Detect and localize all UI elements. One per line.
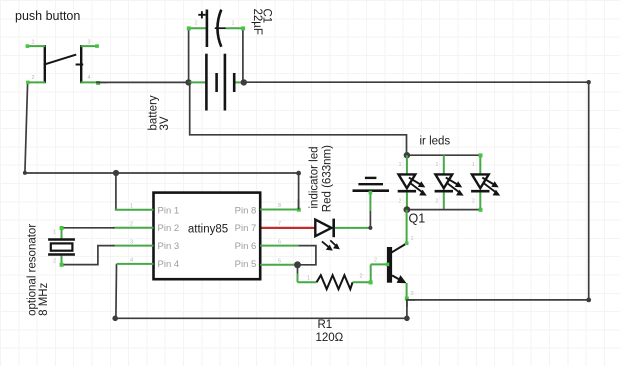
attiny pin 6 stub: [260, 245, 298, 247]
corner dot at (298.6,173): [296, 171, 301, 176]
junction node at (116,173): [113, 170, 119, 176]
wire capacitor left leg down: [188, 28, 190, 82]
ground symbol: [353, 178, 390, 191]
svg-text:1: 1: [411, 236, 414, 242]
wire right rail vertical: [588, 82, 590, 300]
wire battery left node to ir led rail: [190, 82, 407, 155]
svg-text:1: 1: [232, 21, 235, 27]
svg-text:8: 8: [278, 203, 281, 209]
attiny pin 8 stub: [260, 209, 298, 211]
wire push button to battery: [98, 81, 189, 83]
svg-text:Pin 4: Pin 4: [158, 259, 180, 270]
wire ir led bottom rail: [407, 209, 480, 211]
svg-text:1: 1: [130, 204, 133, 210]
junction node collector: [404, 206, 411, 213]
svg-text:Pin 8: Pin 8: [235, 205, 257, 216]
label battery 3V: [148, 95, 172, 130]
label optional resonator 8 MHz: [26, 224, 50, 316]
label indicator led Red (633nm): [309, 145, 334, 212]
label push button: [15, 9, 80, 23]
svg-text:Pin 3: Pin 3: [158, 241, 180, 252]
ir led D3: [471, 155, 500, 209]
svg-text:6: 6: [278, 239, 281, 245]
svg-text:1: 1: [472, 162, 475, 168]
svg-text:3V: 3V: [159, 116, 171, 130]
svg-text:3: 3: [130, 239, 133, 245]
transistor pin number marks: [374, 236, 414, 297]
attiny pin 4 stub: [117, 263, 154, 265]
capacitor C1: [189, 10, 243, 48]
wire capacitor right leg down: [242, 28, 244, 82]
label ir leds: [420, 136, 451, 148]
attiny pin 5 stub: [260, 264, 296, 266]
svg-text:ir leds: ir leds: [420, 136, 451, 148]
svg-text:2: 2: [53, 259, 56, 265]
svg-text:2: 2: [130, 222, 133, 228]
svg-text:Pin 1: Pin 1: [158, 205, 180, 216]
svg-text:8 MHz: 8 MHz: [38, 282, 50, 315]
ir led D1: [398, 155, 427, 209]
wire from push button pin2 down to left rail corner: [25, 83, 28, 173]
junction dot bottom rail left: [112, 316, 118, 322]
svg-text:Pin 2: Pin 2: [158, 223, 180, 234]
svg-text:Pin 7: Pin 7: [235, 223, 257, 234]
junction node pin5 redraw: [294, 261, 301, 268]
svg-text:1: 1: [32, 40, 35, 46]
junction node ir led top: [404, 152, 410, 158]
svg-text:120Ω: 120Ω: [316, 332, 344, 344]
battery BT1: [189, 54, 244, 111]
svg-text:4: 4: [88, 75, 91, 81]
resonator Y1: [48, 228, 75, 265]
wire up to attiny pin 4: [115, 264, 118, 318]
indicator led D4: [315, 219, 370, 251]
svg-text:1: 1: [435, 162, 438, 168]
svg-text:Red (633nm): Red (633nm): [321, 145, 333, 212]
svg-text:2: 2: [399, 199, 402, 205]
wire horizontal VCC rail y=173: [25, 172, 299, 174]
overdrawn dark wire bits at junctions: [96, 82, 415, 307]
wire down to attiny pin 8: [298, 173, 300, 210]
svg-text:22µF: 22µF: [251, 9, 263, 35]
label Q1: [409, 212, 426, 226]
svg-text:Pin 5: Pin 5: [235, 259, 257, 270]
svg-text:Q1: Q1: [409, 212, 426, 226]
svg-text:optional resonator: optional resonator: [26, 224, 38, 316]
junction node battery left: [185, 79, 191, 85]
attiny pin number marks: [130, 203, 281, 264]
ir led pin number marks: [399, 162, 475, 205]
svg-text:battery: battery: [148, 95, 160, 130]
corner dot top right: [587, 80, 591, 84]
attiny pin 3 stub: [113, 245, 154, 247]
svg-text:2: 2: [435, 199, 438, 205]
attiny pin 1 stub: [115, 209, 154, 211]
svg-text:indicator led: indicator led: [309, 146, 321, 208]
wire resonator bottom to pin 3: [62, 246, 115, 265]
push button pin 2 stub: [27, 81, 46, 83]
attiny85 pin labels: [158, 205, 257, 270]
junction node pin5: [294, 261, 301, 268]
svg-text:push button: push button: [15, 9, 80, 23]
wire pin6 to pin5 node: [298, 246, 316, 265]
svg-text:2: 2: [32, 75, 35, 81]
svg-text:7: 7: [278, 221, 281, 227]
label R1 120ohm: [316, 319, 344, 344]
corner dot bottom right: [586, 298, 591, 303]
attiny pin 2 stub: [113, 227, 154, 229]
svg-text:attiny85: attiny85: [188, 224, 228, 236]
svg-text:1: 1: [399, 162, 402, 168]
wire right rail to emitter: [407, 299, 589, 301]
svg-text:1: 1: [307, 276, 310, 282]
push button pin 3 stub: [81, 45, 99, 47]
push button S1: [44, 45, 83, 83]
attiny85 U1: [154, 193, 261, 280]
wire indicator led to ground: [368, 192, 372, 230]
resistor R1: [298, 264, 371, 289]
connection endpoint squares: [26, 26, 483, 300]
junction dot bottom rail right: [404, 316, 410, 322]
svg-text:Pin 6: Pin 6: [235, 241, 257, 252]
corner dot: [23, 171, 27, 175]
wire ir led top rail: [407, 154, 480, 156]
wire down to attiny pin 1: [115, 173, 117, 210]
wire bottom rail: [115, 317, 407, 319]
svg-text:2: 2: [472, 199, 475, 205]
svg-text:3: 3: [88, 40, 91, 46]
svg-text:2: 2: [195, 21, 198, 27]
resonator pin numbers: [53, 230, 56, 265]
push button pin numbers: [32, 40, 91, 81]
wire emitter down to bottom rail: [406, 298, 408, 318]
svg-text:5: 5: [278, 259, 281, 265]
ir led D2: [435, 155, 464, 209]
svg-text:1: 1: [53, 230, 56, 236]
svg-text:4: 4: [130, 258, 133, 264]
push button pin 1 stub: [27, 45, 46, 47]
svg-text:2: 2: [360, 274, 363, 280]
svg-text:3: 3: [411, 291, 414, 297]
wire battery to right rail: [244, 81, 589, 83]
junction node battery right: [241, 79, 247, 85]
resistor pin numbers: [307, 274, 363, 282]
label C1 22uF: [251, 9, 273, 35]
wire resonator top to pin 2: [62, 227, 115, 229]
transistor Q1: [371, 210, 407, 299]
push button pin 4 stub: [81, 81, 99, 83]
svg-text:R1: R1: [318, 319, 333, 331]
capacitor pin number marks: [195, 21, 235, 27]
red wire pin7 to indicator led: [260, 227, 315, 229]
svg-text:2: 2: [374, 258, 377, 264]
